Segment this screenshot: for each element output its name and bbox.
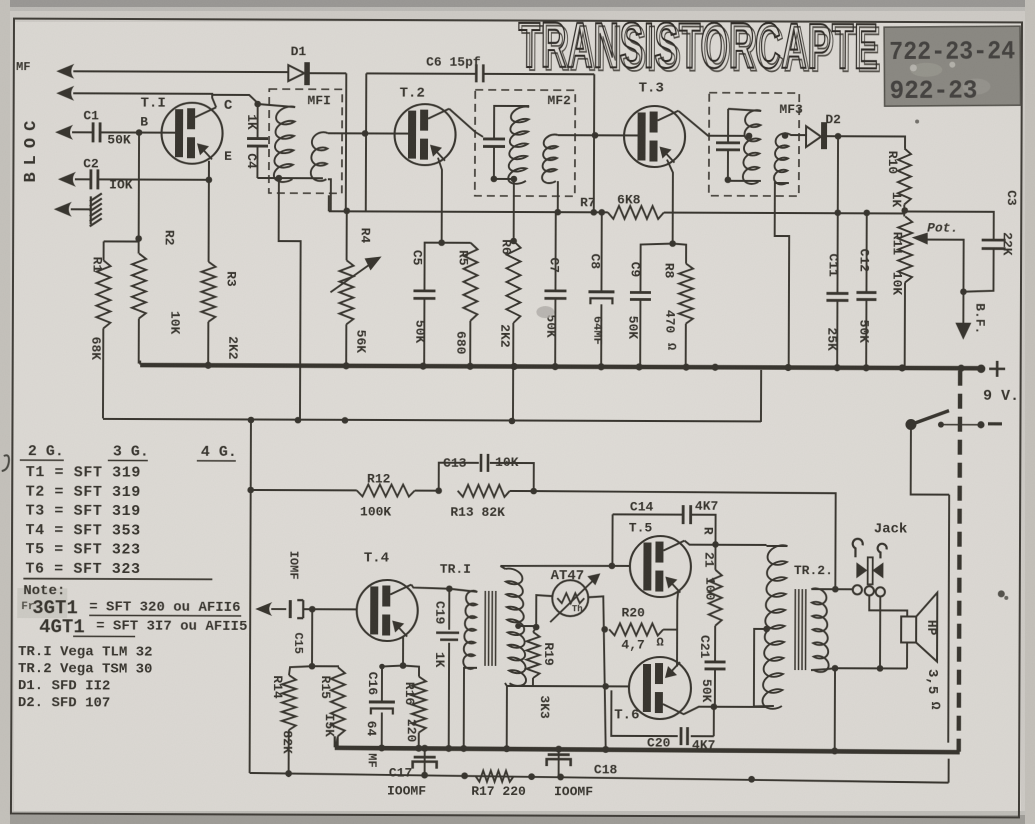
transformer MF3 (dashed box) [709,93,799,196]
parts table [17,443,248,712]
capacitor C17 (electrolytic) [424,748,426,775]
wire T5 collector [684,541,766,545]
wire jack feed [835,588,852,590]
capacitor C18 (electrolytic) [558,749,560,777]
wire T5 emitter down [677,590,678,667]
resistor R5 [441,243,470,366]
speaker HP [901,616,916,642]
wire T2 base [365,132,408,134]
capacitor C11 [836,212,838,293]
resistor R7 [608,206,664,219]
capacitor C6 [366,72,594,75]
MF2 secondary coil [542,134,558,183]
transistor T2 [394,104,455,165]
wire AT47 right / bias line [588,596,607,749]
wire MF1 ground drop [278,178,301,420]
capacitor C20 (feedback) [611,690,714,736]
wire +9V bus (heavy) [140,365,981,368]
input arrow 1 [56,64,74,79]
transistor T3 [624,106,685,167]
TR1 primary coil [449,589,477,592]
MF3 tuning capacitor [728,109,761,143]
wire audio ground bus (heavy) [335,748,960,752]
resistor R4 (variable, with arrow) [345,211,348,365]
resistor R16 [403,666,419,748]
resistor R13 [458,485,510,497]
resistor R10 [898,148,911,204]
antenna ground pad (hatched) [71,208,90,210]
switch [905,419,916,430]
scan marks (decorative) [2,455,9,471]
transistor T6 (flipped) [629,657,691,719]
wire MF1 bottom [257,177,322,179]
battery minus line (heavy dashed) [959,371,960,752]
wire feedback to TR2 secondary [533,491,835,589]
input arrow 2 [56,86,74,101]
capacitor C12 [865,212,867,292]
resistor R14 [289,666,312,777]
wire C6 right drop to T3 base [593,74,596,212]
wire T3 emitter down [667,160,673,244]
wire T4 collector [411,585,449,589]
MF1 primary coil [258,104,296,107]
wire MF2 primary bottom to R6 [513,179,515,241]
transistor T5 [630,536,691,597]
resistor R1 [103,241,139,418]
wire TR2 secondary bottom to bus [834,668,836,751]
wire D2 output [827,135,905,148]
wire T3 collector to MF3 [679,111,746,136]
resistor R17 [476,771,514,782]
wire C11 branch from D2 [837,136,839,212]
node B.F. output arrow [962,292,964,326]
diode D2 [806,126,821,147]
wire T4 emitter [402,637,404,666]
MF3 primary coil [743,110,761,184]
wire AT47 left to center tap [536,595,552,627]
wire T1 base [101,131,175,133]
battery + terminal [989,361,1005,377]
wire T1 emitter row [208,161,210,180]
wire T2 emitter down [438,158,442,243]
wire audio left vertical [250,420,251,773]
capacitor C1 [72,131,161,133]
wire T3 base [595,134,638,136]
capacitor C21 [714,626,716,662]
potentiometer R11 [901,207,908,214]
wire AGC line (long horizontal) [329,211,905,213]
TR2 core [795,589,806,670]
wire T2 collector to MF2 [449,109,483,137]
capacitor C7 [554,212,556,290]
TR1 center tap [515,623,521,629]
resistor R3 [207,161,210,365]
TR2 primary coil [762,545,787,709]
wire switch to audio rail [910,425,950,783]
wire base line T6 [507,685,629,687]
node B (T1 base) [136,129,143,136]
TR1 core [485,591,496,666]
resistor R15 [312,666,338,747]
MF3 secondary coil [774,133,789,184]
wire T1 collector to MF1 [212,94,258,108]
wire speaker bottom [835,642,907,668]
resistor R6 [510,238,517,245]
capacitor C16 (electrolytic) [382,665,403,747]
wire jack middle contact to speaker [869,595,907,616]
TR2 center tap [763,626,770,633]
title TRANSISTOR CAPTE [518,9,881,86]
capacitor C9 [640,243,672,292]
wire T6 collector out [684,707,714,715]
capacitor C3 [905,211,994,239]
capacitor C5 [424,243,441,291]
capacitor C4 [257,104,259,138]
wire C6 branch down to T2 base / AGC line [365,73,368,211]
capacitor C8 (electrolytic) [600,212,602,292]
MF2 primary coil [508,107,529,184]
wire jack right contact down [879,596,881,668]
transistor T1 [161,103,222,164]
capacitor C15 (input electrolytic) [255,602,272,616]
resistor R19 [533,627,536,686]
capacitor C13 [435,487,442,494]
resistor R8 [672,244,686,367]
resistor R12 [251,489,357,491]
wire MF input top (to D1) [73,70,288,73]
part number box 722-23-24 / 922-23 [884,26,1021,106]
capacitor C19 [446,585,453,592]
wire D1 to drop x345 [309,73,347,210]
transformer MF2 (dashed box) [475,90,575,196]
capacitor C2 [75,178,209,181]
transistor T4 [357,580,418,641]
diode D1 [288,65,304,81]
thermistor AT47 [552,580,588,616]
wire T5 base line [500,564,629,567]
TR2 secondary coil [811,588,829,672]
resistor R2 [132,254,146,319]
resistor R20 [609,623,663,635]
wire RF lower rail [103,367,761,422]
pot wiper arrow [912,233,928,245]
resistor R21 [714,544,716,569]
wire B vertical to R2 [138,133,140,254]
wire bottom rail [250,773,949,783]
MF2 tuning capacitor [483,139,505,147]
capacitor C14 [612,514,715,565]
wire T4 base bias drop [311,609,313,666]
TR1 secondary coil [505,569,526,686]
wire MF input 2 (to T1 collector) [73,93,212,98]
transformer MF1 (dashed box) [269,89,342,193]
MF1 secondary coil [311,132,328,181]
